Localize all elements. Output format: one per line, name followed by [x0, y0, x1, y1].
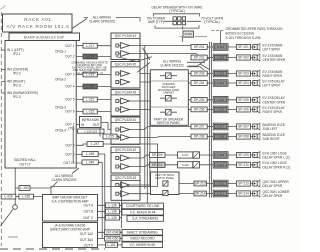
power amp U4 QSC PL340 #3 [111, 90, 140, 117]
svg-text:SP-201: SP-201 [238, 45, 249, 49]
wire label SP-208 (speaker side) [237, 134, 251, 139]
wire riser to sanctuary cluster [121, 181, 123, 228]
amp QSC PL325 #3 channel B triangle [121, 191, 130, 197]
svg-text:S-205: S-205 [217, 98, 224, 102]
leader dash for grommeted note [211, 30, 224, 32]
svg-text:SP-203: SP-203 [194, 72, 205, 76]
amp QSC PL340 #3 channel A input terminal [116, 100, 119, 103]
wire continuation marks [180, 36, 207, 38]
speaker name label row 9 [263, 151, 290, 159]
wire input stub 4 [1, 92, 5, 94]
wire speaker circuit row 6 [129, 109, 253, 111]
wire label SP-206 (amp side) [191, 107, 207, 112]
speaker LS row 2 [253, 54, 260, 61]
amp QSC PL325 #1 channel A triangle [121, 127, 130, 133]
bus vertical wire pair (speaker feed riser) [209, 42, 211, 198]
wire input stub 1 [1, 49, 5, 51]
switch S3 in panel SW1 [166, 109, 172, 115]
svg-text:L-222: L-222 [86, 110, 94, 114]
svg-text:QSC PL340 #3: QSC PL340 #3 [115, 91, 137, 95]
wire sacred hall OUT 17 drop [14, 168, 16, 205]
speaker name label row 7 [263, 123, 285, 131]
svg-text:SP-213: SP-213 [195, 182, 206, 186]
wire dist amp output [98, 217, 123, 219]
svg-text:SP-206: SP-206 [194, 108, 205, 112]
wire sanctuary amp output [98, 231, 123, 233]
speaker name label row 12 [263, 190, 291, 198]
switch S2 in panel SW1 [166, 95, 172, 101]
speaker name label row 4 [263, 79, 286, 87]
wire speaker circuit row 7 [129, 127, 253, 130]
wire label SP-209 (amp side) [150, 153, 166, 158]
wire amp QSC PL340 #3 ch A internal [119, 100, 121, 102]
wire vertical tie line 1 [144, 46, 146, 189]
detail label 70 volt speaker [201, 17, 224, 25]
speaker LS row 1 [253, 44, 260, 51]
attenuator symbol row 9 [193, 152, 199, 158]
amp QSC PL325 #3 channel B input terminal [116, 192, 119, 195]
speaker LS row 6 [253, 106, 260, 113]
wire stub mark [8, 236, 18, 238]
wire from DSP to label L-218 [76, 56, 110, 58]
svg-text:OUT 17: OUT 17 [19, 163, 30, 167]
wire label SP-205 (speaker side) [237, 97, 251, 102]
wire label L-151 [106, 243, 118, 248]
svg-text:L-220: L-220 [86, 85, 94, 89]
wire DSP OUT7 to INFRA IN [76, 124, 79, 126]
amp QSC PL340 #3 channel A triangle [121, 98, 130, 104]
speaker LS row 5 [253, 96, 260, 103]
amp QSC PL325 #1 channel B triangle [121, 135, 130, 141]
svg-text:QSC PL340 #2: QSC PL340 #2 [115, 63, 137, 67]
wire label 247+248 [105, 230, 121, 235]
svg-text:S-218: S-218 [182, 163, 189, 167]
wire label L-150 [19, 186, 30, 191]
wire switch S3 leads [160, 111, 177, 113]
svg-text:SP-203: SP-203 [238, 72, 249, 76]
wire label SP-203 (speaker side) [237, 71, 251, 76]
svg-text:SP-205: SP-205 [238, 98, 249, 102]
attenuator symbol row 10 [193, 162, 199, 168]
distribution amp U8 box [43, 195, 98, 222]
detail label 70V power amp [147, 17, 166, 25]
svg-text:V.C. MIXER IN #4: V.C. MIXER IN #4 [130, 210, 156, 214]
wire amp QSC PL340 #2 ch B internal [119, 81, 121, 83]
amp QSC PL340 #1 channel B input terminal [116, 52, 119, 55]
svg-text:LEFT SPKR: LEFT SPKR [263, 48, 281, 52]
wire feed to RANE amp input 2 [101, 162, 103, 238]
svg-text:ALL RUNS (AMP 1 - 6): ALL RUNS (AMP 1 - 6) [76, 71, 103, 75]
wire amp QSC PL325 #2 ch B internal [119, 166, 121, 168]
speaker name label row 1 [263, 43, 284, 51]
volume control box S-217 [178, 152, 193, 158]
interface box INFRA M2B [80, 117, 102, 128]
wire label SP-214 (panel side) [194, 191, 207, 196]
wire label SP-214 (speaker side) [237, 191, 251, 196]
svg-text:INFRA M2B: INFRA M2B [82, 118, 99, 122]
svg-text:S-207: S-207 [217, 125, 224, 129]
svg-text:OUT 6: OUT 6 [65, 110, 75, 114]
DSP input IN 1 (LEFT) pin IP2-1 [7, 48, 24, 56]
amp QSC PL325 #2 channel B input terminal [116, 165, 119, 168]
amp QSC PL325 #2 channel B triangle [121, 164, 130, 170]
svg-text:SP-209: SP-209 [238, 153, 249, 157]
speaker LS row 7 [253, 123, 260, 130]
svg-text:(TYPICAL): (TYPICAL) [169, 9, 184, 13]
speaker name label row 3 [263, 70, 284, 78]
svg-text:OUT 5: OUT 5 [84, 243, 94, 247]
amp QSC PL325 #1 channel B input terminal [116, 136, 119, 139]
pass-through box S-212 [213, 190, 228, 197]
wire from DSP to label L-222 [76, 111, 110, 113]
wire speaker circuit row 12 [129, 193, 253, 195]
wire label L-223+224 [78, 129, 105, 133]
svg-text:(TYPICAL): (TYPICAL) [204, 20, 219, 24]
pass-through box S-208 [213, 133, 228, 140]
pass-through box S-211 [213, 180, 228, 187]
pass-through box S-205 [213, 97, 228, 104]
destination box SA streaming [127, 216, 164, 222]
DSP input IN4 (CENTER) pin IP2-2 [7, 68, 28, 76]
leader lines for SPA220S note [52, 168, 80, 188]
svg-text:SP-205: SP-205 [194, 98, 205, 102]
wire speaker circuit row 3 [140, 73, 253, 75]
wire amp QSC PL340 #1 ch A internal [119, 45, 121, 47]
sheet edge dashed border bottom [0, 248, 105, 250]
wire vertical tie line 2 [146, 54, 148, 203]
wire transformer leads [182, 26, 184, 42]
svg-text:OUT: OUT [93, 123, 100, 127]
wire speaker circuit row 2 [129, 54, 253, 58]
detail note: delay speaker 70V wire title [152, 6, 203, 14]
wire speaker switch tap diagonal [188, 58, 209, 66]
detail dimension bracket lower [155, 25, 199, 28]
DSP input IN6 (SUBWOOFERS) pin IP2-3 [7, 91, 38, 99]
note: all wiring Clark CM1202 [160, 60, 184, 68]
svg-text:QSC PL325 #3: QSC PL325 #3 [115, 176, 137, 180]
power amp U5 QSC PL325 #1 [111, 117, 140, 144]
wire label SP-204 (amp side) [191, 81, 207, 86]
wire label L-225 [103, 134, 117, 139]
wire amp QSC PL325 #1 ch B internal [119, 137, 121, 139]
note: all wiring Clark SPW2205 (top) [89, 16, 115, 24]
svg-text:S-209: S-209 [217, 153, 224, 157]
svg-text:OP2a-2: OP2a-2 [55, 78, 66, 82]
wire amp QSC PL325 #3 ch A internal [119, 184, 121, 186]
svg-text:CLARK SPA220S: CLARK SPA220S [51, 178, 76, 182]
wire label 249+250 [105, 236, 121, 241]
svg-text:OUT 2: OUT 2 [65, 55, 75, 59]
svg-text:S-203: S-203 [217, 72, 224, 76]
svg-text:OUT 4: OUT 4 [65, 85, 75, 89]
sheet edge dashed border left [0, 12, 2, 246]
wire switch S2 leads [160, 97, 177, 99]
wire label L-218 [83, 54, 97, 59]
wire amp QSC PL340 #3 ch B internal [119, 109, 121, 111]
pass-through box S-201 [213, 44, 228, 51]
svg-text:LEFT SPKR: LEFT SPKR [263, 84, 281, 88]
wire DSP OUT9 to label L-248 [76, 153, 105, 156]
amp QSC PL325 #1 channel A input terminal [116, 128, 119, 131]
wire leader drop to S-201 [220, 31, 222, 44]
svg-text:IP2-3: IP2-3 [13, 95, 21, 99]
svg-text:OUT 3: OUT 3 [65, 73, 75, 77]
wire label L-220 [83, 84, 97, 89]
svg-text:L-230: L-230 [22, 195, 30, 199]
svg-text:COURTYARD TIE LINE: COURTYARD TIE LINE [126, 204, 160, 208]
wire label L-138 [106, 209, 120, 214]
wire elbow amp to tie lines [142, 48, 150, 61]
speaker LS row 4 [253, 80, 260, 87]
wire from DSP to label L-219 [76, 74, 110, 76]
svg-text:L-223+224: L-223+224 [84, 129, 97, 133]
transformer T1 (70V xfmr) [183, 31, 194, 37]
svg-text:CENTER SPKR: CENTER SPKR [263, 100, 286, 104]
speaker LS row 11 [253, 180, 260, 187]
wire label SP-210 (speaker side) [237, 162, 251, 167]
svg-text:SP-207: SP-207 [238, 125, 249, 129]
svg-text:DELAY SPKR L (2): DELAY SPKR L (2) [263, 156, 290, 160]
pass-through box S-203 [213, 70, 228, 77]
node junction circle [13, 205, 18, 210]
speaker LS row 10 [253, 161, 260, 168]
svg-text:SP-214: SP-214 [238, 192, 249, 196]
speaker LS row 12 [253, 190, 260, 197]
power amp U2 QSC PL340 #1 [111, 33, 140, 60]
wire label SP-208 (amp side) [191, 134, 207, 139]
svg-text:SP-214: SP-214 [195, 192, 206, 196]
speaker LS row 9 [253, 152, 260, 159]
svg-text:L-247: L-247 [91, 142, 99, 146]
svg-text:SANCTUARY DISTRO AMP: SANCTUARY DISTRO AMP [50, 228, 90, 232]
svg-text:L-151: L-151 [107, 243, 115, 247]
svg-text:SP-204: SP-204 [194, 81, 205, 85]
svg-text:QSC PL340 #1: QSC PL340 #1 [115, 34, 137, 38]
wire amp QSC PL340 #1 ch B internal [119, 53, 121, 55]
wire label SP-202 (speaker side) [237, 55, 251, 60]
DSP output label SACRED HALL OUT 17 [14, 158, 36, 166]
svg-text:OP2a-3: OP2a-3 [55, 106, 66, 110]
note block speaker wiring text [71, 60, 108, 74]
svg-text:IP2-1: IP2-1 [13, 52, 21, 56]
svg-text:QSC PL325 #2: QSC PL325 #2 [115, 148, 137, 152]
wire label SP-210 (amp side) [150, 162, 166, 167]
wire label SP-213 (speaker side) [237, 181, 251, 186]
wire speaker circuit row 11 [129, 184, 253, 186]
svg-text:SP-207: SP-207 [194, 125, 205, 129]
sheet corner diagonal artifact [1, 6, 6, 10]
power amp U6 QSC PL325 #2 [111, 147, 140, 173]
wire amp QSC PL325 #1 ch A internal [119, 129, 121, 131]
wire label SP-203 (amp side) [191, 71, 207, 76]
svg-text:CENTER SPKR: CENTER SPKR [263, 58, 286, 62]
svg-text:VIDEO RECORD: VIDEO RECORD [130, 237, 155, 241]
wire label L-248 [82, 152, 98, 157]
svg-text:DELAY SPKR: DELAY SPKR [263, 184, 283, 188]
svg-text:V.C. MIXER IN #5: V.C. MIXER IN #5 [130, 243, 156, 247]
speaker LS row 3 [253, 70, 260, 77]
pass-through box S-210 [213, 162, 228, 169]
DSP U1 BIAMP AUDIAFLEX main box [5, 33, 80, 168]
svg-text:L-225: L-225 [106, 135, 114, 139]
svg-text:SACRED HALL: SACRED HALL [14, 158, 36, 162]
speaker name label row 6 [263, 106, 286, 114]
svg-text:S.A. STREAMING: S.A. STREAMING [132, 217, 158, 221]
power amp U3 QSC PL340 #2 [111, 62, 140, 89]
svg-text:OUT A: OUT A [83, 203, 93, 207]
svg-text:S-208: S-208 [217, 135, 224, 139]
wire speaker circuit row 1 [129, 46, 253, 48]
svg-text:AMP (TYP): AMP (TYP) [148, 20, 164, 24]
speaker name label row 5 [263, 96, 286, 104]
wire detail terminal leads [164, 20, 201, 22]
svg-text:RACK A01: RACK A01 [24, 17, 52, 22]
leader line for SPW2205 note [72, 18, 140, 29]
svg-text:SP-204: SP-204 [238, 81, 249, 85]
svg-text:S-212: S-212 [217, 192, 224, 196]
wire amp QSC PL340 #2 ch A internal [119, 73, 121, 75]
svg-text:RIGHT SPKR: RIGHT SPKR [263, 74, 283, 78]
pass-through box S-207 [213, 123, 228, 130]
speaker name label row 10 [263, 161, 291, 169]
amp QSC PL340 #1 channel A input terminal [116, 44, 119, 47]
wire label SP-206 (speaker side) [237, 107, 251, 112]
wire label L-219 [83, 72, 97, 77]
svg-text:L-248: L-248 [86, 152, 94, 156]
svg-text:SP-202: SP-202 [194, 56, 205, 60]
svg-text:QSC PL325 #1: QSC PL325 #1 [115, 118, 137, 122]
wire label SP-201 (amp side) [191, 45, 207, 50]
wire input stub 3 [1, 81, 5, 83]
volume control box S-218 [178, 162, 193, 168]
wire feed to RANE amp input 1 [104, 154, 106, 232]
amp QSC PL340 #3 channel B input terminal [116, 108, 119, 111]
wire feed to distribution amp [51, 144, 158, 195]
wire dist amp output [98, 204, 123, 206]
speaker name label row 8 [263, 133, 285, 141]
amp QSC PL340 #2 channel A triangle [121, 71, 130, 77]
amp QSC PL340 #3 channel B triangle [121, 107, 130, 113]
svg-text:S-204: S-204 [217, 81, 224, 85]
amp QSC PL340 #1 channel B triangle [121, 51, 130, 57]
svg-text:SANCT. STREAMING: SANCT. STREAMING [127, 230, 159, 234]
svg-text:OUT 5: OUT 5 [65, 98, 75, 102]
amp QSC PL325 #3 channel A triangle [121, 182, 130, 188]
power amp U7 QSC PL325 #3 [111, 175, 140, 200]
pass-through box S-202 [213, 54, 228, 61]
svg-text:OUT 1&2: OUT 1&2 [80, 232, 93, 236]
svg-text:A/V RACK ROOM 101.6: A/V RACK ROOM 101.6 [6, 24, 69, 29]
svg-text:OUT B: OUT B [83, 210, 93, 214]
wire horizontal to distribution amp [1, 196, 42, 198]
wire label L-136 [106, 203, 120, 208]
amp QSC PL325 #2 channel A triangle [121, 155, 130, 161]
rack title box [3, 14, 73, 32]
destination box courtyard tie line [122, 203, 164, 209]
svg-text:SP-202: SP-202 [238, 56, 249, 60]
destination box VC mixer in 5 [122, 242, 163, 248]
svg-text:S-217: S-217 [182, 153, 189, 157]
speaker name label row 2 [263, 54, 286, 62]
wire label SP-202 (amp side) [191, 55, 207, 60]
switch S4 in panel SW2 [163, 181, 168, 186]
wire from DSP to label L-220 [76, 86, 110, 88]
wire label L-217 [83, 43, 97, 48]
svg-text:L-136: L-136 [108, 203, 116, 207]
svg-text:CABINET: CABINET [163, 91, 175, 95]
amp QSC PL340 #2 channel B triangle [121, 79, 130, 85]
wire label L-249 [82, 160, 98, 165]
wire label SP-201 (speaker side) [237, 44, 251, 49]
svg-text:L-218: L-218 [86, 55, 94, 59]
svg-text:OUT C: OUT C [83, 216, 94, 220]
pass-through box S-206 [213, 106, 228, 113]
wire DSP OUT10 to label L-249 [76, 161, 102, 164]
wire label SP-204 (speaker side) [237, 80, 251, 85]
svg-text:SUB LEFT: SUB LEFT [263, 127, 278, 131]
wire amp QSC PL325 #2 ch A internal [119, 157, 121, 159]
wire switch S1 leads [160, 75, 177, 77]
svg-text:SP-201: SP-201 [194, 45, 205, 49]
svg-text:SP-213: SP-213 [238, 182, 249, 186]
detail dimension bracket upper [154, 14, 200, 17]
amp QSC PL340 #1 channel A triangle [121, 43, 130, 49]
svg-text:249+250: 249+250 [106, 237, 119, 241]
svg-text:L-229: L-229 [4, 195, 12, 199]
svg-text:OP2a-1: OP2a-1 [55, 49, 66, 53]
switch S1 in panel SW1 [166, 73, 172, 79]
DSP input IN5 (RIGHT) pin IP2-3 [7, 80, 25, 88]
wire speaker circuit row 9 [129, 155, 253, 158]
svg-text:S-206: S-206 [217, 107, 224, 111]
svg-text:L-249: L-249 [86, 160, 94, 164]
svg-text:S-211: S-211 [217, 182, 224, 186]
amp QSC PL325 #3 channel A input terminal [116, 184, 119, 187]
wire INFRA OUT to amp PL325 #1 [101, 123, 111, 130]
speaker switch panel SW1 box [150, 70, 188, 126]
svg-text:DELAY SPKR: DELAY SPKR [263, 194, 283, 198]
svg-text:IP2-2: IP2-2 [13, 71, 21, 75]
wire DSP OUT8 to label L-247 [76, 144, 110, 145]
note: grommeted pass-through boxes [226, 27, 284, 40]
wire label L-139 [106, 215, 120, 220]
wire label SP-205 (amp side) [191, 97, 207, 102]
svg-text:XFMR: XFMR [185, 32, 192, 36]
svg-text:OUT 3&4: OUT 3&4 [80, 238, 93, 242]
wire speaker circuit row 10 [129, 165, 253, 167]
wire label L-221 [83, 97, 97, 102]
svg-text:SWITCH PANEL: SWITCH PANEL [157, 121, 181, 125]
wire sanctuary amp output [98, 244, 123, 246]
svg-text:S-210: S-210 [217, 163, 224, 167]
wire from DSP to label L-217 [76, 45, 110, 47]
wire dist amp output [98, 211, 123, 213]
svg-text:L-217: L-217 [86, 44, 94, 48]
svg-text:OUT 1: OUT 1 [65, 44, 75, 48]
wire input stub 2 [1, 69, 5, 71]
pass-through box S-204 [213, 80, 228, 87]
svg-text:SUB RIGHT: SUB RIGHT [263, 137, 280, 141]
destination box VC mixer in 4 [122, 209, 164, 215]
wire label SP-207 (speaker side) [237, 124, 251, 129]
svg-text:DELAY SPKR R (2): DELAY SPKR R (2) [263, 165, 291, 169]
wire to label L-225 [100, 128, 121, 138]
wire label L-222 [83, 109, 97, 114]
wire speaker circuit row 8 [129, 137, 253, 138]
wire vertical tie line 3 [149, 74, 151, 187]
note: all wiring Clark SPA220S (bottom) [51, 174, 76, 182]
wire label L-247 [87, 142, 103, 147]
